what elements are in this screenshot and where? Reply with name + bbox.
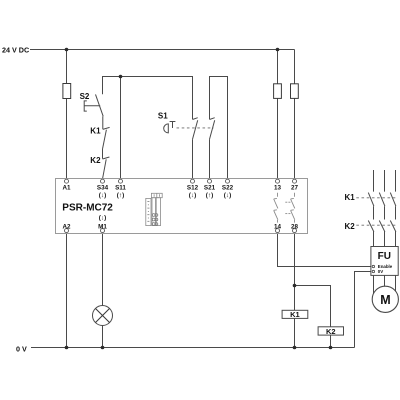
- svg-text:M1: M1: [98, 223, 107, 230]
- svg-text:FU: FU: [378, 251, 391, 262]
- svg-text:0 V: 0 V: [16, 344, 27, 353]
- svg-text:(↑): (↑): [206, 192, 213, 199]
- svg-text:S2: S2: [80, 92, 90, 101]
- svg-text:S21: S21: [204, 184, 216, 191]
- svg-text:S12: S12: [187, 184, 199, 191]
- svg-text:S1: S1: [158, 112, 168, 121]
- svg-text:(↓): (↓): [99, 192, 106, 199]
- svg-text:24 V DC: 24 V DC: [2, 45, 29, 54]
- svg-text:K2: K2: [90, 156, 101, 165]
- svg-text:A2: A2: [62, 223, 71, 230]
- svg-text:A1: A1: [62, 184, 71, 191]
- svg-text:14: 14: [274, 223, 282, 230]
- svg-text:S11: S11: [115, 184, 126, 191]
- svg-text:K1: K1: [90, 126, 101, 135]
- svg-text:0V: 0V: [378, 269, 383, 274]
- svg-text:K1: K1: [345, 193, 356, 202]
- svg-text:27: 27: [291, 184, 299, 191]
- svg-text:K2: K2: [345, 222, 356, 231]
- svg-text:(↑): (↑): [117, 192, 124, 199]
- svg-text:28: 28: [291, 223, 299, 230]
- svg-text:K2: K2: [326, 327, 336, 336]
- svg-text:S34: S34: [97, 184, 109, 191]
- svg-text:(↓): (↓): [189, 192, 196, 199]
- svg-text:(↓): (↓): [224, 192, 231, 199]
- svg-text:S22: S22: [222, 184, 234, 191]
- svg-text:K1: K1: [290, 310, 300, 319]
- svg-text:PSR-MC72: PSR-MC72: [62, 203, 113, 214]
- svg-text:(↓): (↓): [99, 215, 106, 222]
- svg-text:13: 13: [274, 184, 282, 191]
- svg-text:M: M: [380, 293, 390, 307]
